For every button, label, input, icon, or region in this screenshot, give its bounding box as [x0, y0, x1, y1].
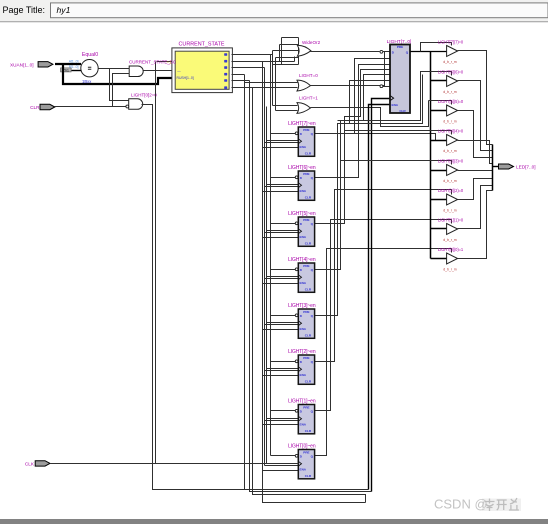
comparator U_Equal0 [69, 52, 99, 77]
wire dff3 clk in [267, 322, 299, 324]
svg-text:LIGHT[4](4)=0: LIGHT[4](4)=0 [438, 128, 464, 133]
wire loop left V2 [155, 62, 157, 464]
wire dff2 clk2 in [265, 370, 299, 372]
svg-text:LED[7..0]: LED[7..0] [516, 165, 536, 170]
svg-text:LIGHT[1](1)=0: LIGHT[1](1)=0 [438, 217, 464, 222]
wire buf1 in stub [431, 228, 447, 230]
wire buf1 out [458, 186, 493, 229]
page title field [51, 3, 548, 18]
flip-flop LIGHT[3]~en [288, 303, 316, 338]
svg-text:d_b_r_m: d_b_r_m [443, 238, 457, 242]
svg-text:ENA: ENA [300, 145, 307, 149]
wire dff2 D in [271, 361, 296, 363]
svg-text:LIGHT[5](5)=0: LIGHT[5](5)=0 [438, 99, 464, 104]
wire buf2 en tail [451, 190, 453, 195]
svg-text:LIGHT[0](0)=1: LIGHT[0](0)=1 [438, 247, 464, 252]
wire reg Q to buf7 [411, 51, 447, 53]
svg-text:ENA: ENA [300, 468, 307, 472]
wire buf3 out [458, 170, 493, 172]
wire dff6 clk in [267, 184, 299, 186]
svg-text:PRE: PRE [397, 45, 403, 49]
state machine block CURRENT_STATE [172, 41, 233, 92]
svg-text:ENA: ENA [300, 235, 307, 239]
wire buf4 en [345, 131, 452, 135]
flip-flop LIGHT[2]~en [288, 349, 316, 384]
wire dff0 clk in [267, 463, 299, 465]
wire fan drop or3a [272, 51, 274, 106]
wire state block top input [157, 61, 174, 63]
node dff2 D bubble [295, 360, 298, 363]
svg-text:PRE: PRE [303, 264, 309, 268]
wire buf4 out [458, 141, 493, 164]
svg-text:CLR: CLR [305, 379, 312, 383]
wire state out3 [232, 74, 245, 76]
wire buf3 in stub [431, 170, 447, 172]
wire or3 in1 [273, 105, 298, 107]
svg-text:CLK: CLK [25, 461, 35, 466]
wire buf6 out [458, 81, 493, 151]
wire dff5 D in [271, 223, 296, 225]
wire buf6 in stub [431, 80, 447, 82]
flip-flop LIGHT[1]~en [288, 399, 316, 434]
wire state out1 [232, 61, 295, 63]
svg-text:LIGHT[6](6)=0: LIGHT[6](6)=0 [438, 69, 464, 74]
tri-state buffer T0 [438, 247, 464, 271]
tri-state buffer T1 [438, 217, 464, 241]
wire dff7 Q out [315, 59, 391, 134]
output pin LED[7..0] [499, 164, 514, 169]
wire dff5 clk in [267, 230, 299, 232]
wire vert bus ena distr [263, 62, 366, 503]
svg-text:PRE: PRE [303, 356, 309, 360]
wire buf5 out [458, 111, 493, 158]
wire dff1 clk in [267, 418, 299, 420]
node dff3 D bubble [295, 314, 298, 317]
svg-text:CLR: CLR [399, 109, 406, 113]
wire state out0 [232, 54, 273, 56]
wire vert bus data distr [270, 55, 272, 456]
wire buf1 en tail [451, 220, 453, 224]
tri-state buffer T3 [438, 158, 464, 182]
svg-text:hy1: hy1 [57, 5, 71, 15]
wire Equal0 branch to AND2 [110, 69, 129, 101]
wire reg ena riser [369, 105, 391, 490]
wire collector to pin [493, 166, 499, 168]
flip-flop LIGHT[5]~en [288, 211, 316, 246]
wire CLR to AND2 [55, 106, 126, 108]
wire dff6 D in [271, 177, 296, 179]
wire dff6 Q out [315, 65, 391, 178]
svg-text:LIGHT[7](7)=0: LIGHT[7](7)=0 [438, 39, 464, 44]
svg-text:CLR: CLR [305, 474, 312, 478]
constant value box [61, 68, 72, 72]
wire dff2 clk in [267, 368, 299, 370]
wire reg clk riser [372, 99, 391, 492]
bottom scrollbar [0, 519, 548, 524]
wire dff3 D in [271, 315, 296, 317]
wire dff4 clk2 in [265, 278, 299, 280]
flip-flop LIGHT[0]~en [288, 444, 316, 479]
wire vert bus clk1 distr [266, 107, 268, 464]
svg-text:d_b_r_m: d_b_r_m [443, 149, 457, 153]
wire dff5 ena in [263, 237, 299, 239]
wire AND1 out to state block [144, 70, 174, 72]
tri-state buffer T2 [438, 188, 464, 212]
wire bus XUAN to Equal0 A [55, 63, 81, 65]
wire or2 in2 [250, 87, 298, 89]
node dff0 D bubble [295, 454, 298, 457]
wire bus XUAN branch to RUSH [63, 64, 174, 84]
tri-state buffer T5 [438, 99, 464, 123]
wire dff1 clk2 in [265, 420, 299, 422]
wire dff1 Q out [315, 220, 452, 411]
wire reg stub0 [383, 51, 391, 53]
wire vert bus B [250, 81, 372, 492]
svg-text:XUAN[1..0]: XUAN[1..0] [10, 62, 33, 67]
svg-text:d_b_r_m: d_b_r_m [443, 60, 457, 64]
svg-text:CSDN @: CSDN @ [434, 497, 488, 512]
svg-text:CLR: CLR [305, 287, 312, 291]
svg-text:WideOr2: WideOr2 [302, 40, 321, 45]
wire dff4 D in [271, 269, 296, 271]
svg-text:d_b_r_m: d_b_r_m [443, 267, 457, 271]
wire buf7 out [458, 51, 493, 145]
wire bottom link v [364, 495, 366, 503]
svg-text:CURRENT_STATE: CURRENT_STATE [179, 41, 225, 47]
wire or3 out under register [311, 101, 429, 127]
OR gate LIGHT=1 [297, 96, 318, 114]
wire buf7 en loop [421, 43, 452, 52]
wire dff2 ena in [263, 375, 299, 377]
wire vert bus A [244, 75, 246, 490]
wire or1 out to reg [311, 51, 380, 53]
svg-text:PRE: PRE [303, 218, 309, 222]
wire state out4 [232, 80, 250, 82]
wire vert bus C [253, 88, 364, 495]
wire dff2 Q out [315, 190, 452, 362]
wire dff3 clk2 in [265, 324, 299, 326]
toolbar background [0, 0, 548, 21]
wire dff0 clk2 in [265, 465, 299, 467]
svg-text:ENA: ENA [392, 103, 399, 107]
node dff1 D bubble [295, 409, 298, 412]
wire dff3 ena in [263, 329, 299, 331]
tri-state buffer T4 [438, 128, 464, 152]
wire fan drop c [279, 45, 281, 62]
wire buf0 en tail [451, 249, 453, 253]
node dff6 D bubble [295, 176, 298, 179]
wire buf5 en feed [341, 75, 423, 124]
svg-text:d_b_r_m: d_b_r_m [443, 179, 457, 183]
wire buf2 in stub [431, 199, 447, 201]
svg-text:=1: =1 [166, 60, 172, 65]
wire or2 out [311, 86, 385, 87]
wire fan drop d [294, 57, 296, 62]
svg-text:PRE: PRE [303, 450, 309, 454]
wire buf2 out [458, 179, 493, 200]
wire loop left V1 [142, 105, 369, 490]
svg-text:ENA: ENA [300, 373, 307, 377]
svg-text:CLR: CLR [30, 105, 40, 110]
wire dff7 clk2 in [265, 142, 299, 144]
wire reg stub vert [384, 52, 386, 87]
wire dff0 D in [271, 455, 296, 457]
svg-text:CLR: CLR [305, 195, 312, 199]
svg-text:CLR: CLR [305, 429, 312, 433]
tri-state buffer T7 [438, 39, 464, 63]
wire dff3 Q out [315, 81, 391, 316]
svg-text:Page Title:: Page Title: [3, 5, 46, 15]
node dff7 D bubble [295, 132, 298, 135]
wire vert bus clk2 distr [264, 68, 266, 466]
wire buf0 in stub [431, 258, 447, 260]
register LIGHT[7..0] [387, 39, 412, 113]
wire dff7 clk in [267, 140, 299, 142]
svg-text:d_b_r_m: d_b_r_m [443, 119, 457, 123]
wire dff0 Q out [315, 249, 452, 456]
wire dff6 clk2 in [265, 186, 299, 188]
svg-text:CLR: CLR [305, 241, 312, 245]
svg-text:A[1..0]: A[1..0] [69, 59, 79, 63]
AND gate U_light0 [126, 93, 157, 110]
wire dff5 Q out [315, 70, 391, 224]
svg-text:LIGHT[0]2=0: LIGHT[0]2=0 [131, 93, 157, 98]
flip-flop LIGHT[6]~en [288, 165, 316, 200]
svg-text:ENA: ENA [300, 189, 307, 193]
svg-text:CLR: CLR [305, 333, 312, 337]
svg-text:LIGHT[2](2)=0: LIGHT[2](2)=0 [438, 188, 464, 193]
wire fan drop or3b [275, 58, 277, 111]
wire dff1 ena in [263, 424, 299, 426]
svg-text:ENA: ENA [300, 281, 307, 285]
wire state out2 [232, 67, 265, 69]
wire dff1 D in [271, 410, 296, 412]
AND gate U_cs_sc [129, 66, 143, 77]
tri-state buffer T6 [438, 69, 464, 93]
wire buf6 en [338, 72, 452, 121]
node reg stub0 bubble [380, 50, 383, 53]
node reg stub6 bubble [380, 85, 383, 88]
svg-text:ENA: ENA [300, 327, 307, 331]
wire state out5 [232, 87, 253, 89]
wire buf4 in stub [431, 140, 447, 142]
svg-text:d_b_r_m: d_b_r_m [443, 90, 457, 94]
wire CLK pin wire [51, 463, 299, 465]
svg-text:RUSH[1..0]: RUSH[1..0] [177, 76, 194, 80]
wire dff4 Q out [315, 75, 391, 270]
wire dff0 ena in [263, 470, 299, 472]
wire dff5 clk2 in [265, 232, 299, 234]
svg-text:Equal0: Equal0 [82, 52, 98, 58]
OR gate LIGHT=0 [297, 73, 318, 91]
wire or3 in2 [276, 110, 298, 112]
wire collector bus [492, 145, 494, 191]
wire dff6 ena in [263, 191, 299, 193]
node dff4 D bubble [295, 268, 298, 271]
svg-text:PRE: PRE [303, 172, 309, 176]
svg-text:LIGHT=1: LIGHT=1 [299, 96, 318, 101]
svg-text:PRE: PRE [303, 310, 309, 314]
svg-text:LIGHT[3](3)=0: LIGHT[3](3)=0 [438, 158, 464, 163]
WideOr2 input fan box [282, 37, 299, 39]
flip-flop LIGHT[4]~en [288, 257, 316, 292]
svg-text:ENA: ENA [300, 423, 307, 427]
wire aux under register [337, 134, 436, 141]
wire buf5 en [429, 101, 452, 105]
wire buf0 out [458, 191, 493, 259]
wire CLR branch to AND1 [113, 74, 130, 107]
node dff5 D bubble [295, 222, 298, 225]
wire dff4 ena in [263, 283, 299, 285]
OR gate WideOr2 [297, 40, 320, 56]
watermark CSDN [482, 499, 521, 512]
wire buf5 in stub [431, 110, 447, 112]
wire dff7 D in [271, 133, 296, 135]
wire Equal0 out to AND1 [99, 68, 130, 70]
svg-text:CLR: CLR [305, 151, 312, 155]
svg-text:PRE: PRE [303, 405, 309, 409]
wire buf3 en [341, 161, 452, 165]
wire dff4 clk in [267, 276, 299, 278]
wire or2 in1 [245, 82, 298, 84]
wire buf input bus vert [430, 52, 432, 259]
svg-text:d_b_r_m: d_b_r_m [443, 208, 457, 212]
flip-flop LIGHT[7]~en [288, 121, 316, 156]
svg-text:LIGHT=0: LIGHT=0 [299, 73, 318, 78]
wire constant to Equal0 B [72, 70, 82, 72]
wire reg stub6 [383, 86, 391, 88]
wire dff7 ena in [263, 147, 299, 149]
svg-text:PRE: PRE [303, 128, 309, 132]
